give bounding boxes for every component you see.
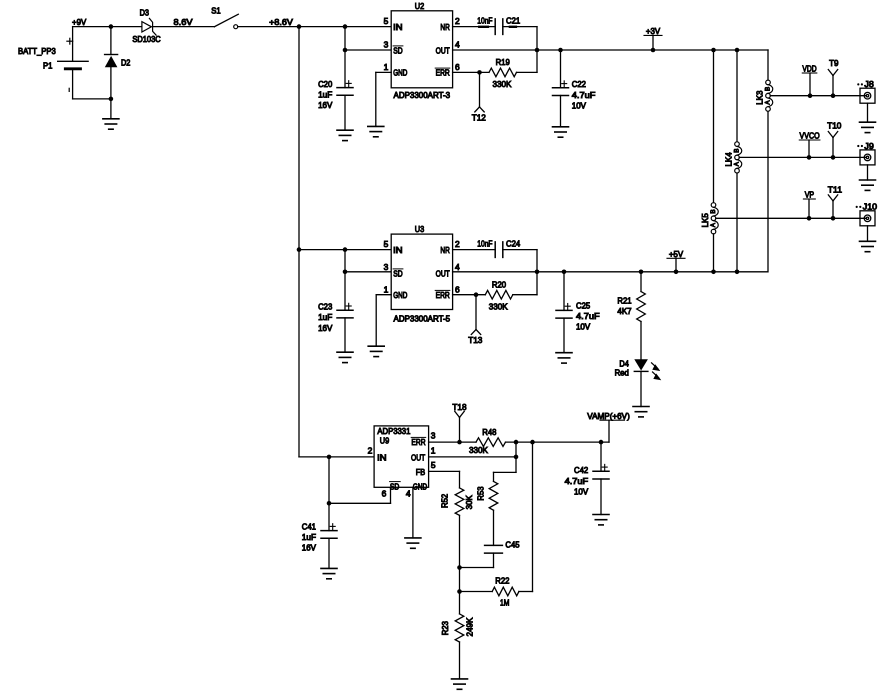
wire U2 ERR <box>453 71 489 73</box>
node +8.6V rail junction <box>297 24 302 29</box>
svg-text:3: 3 <box>431 431 436 441</box>
svg-text:4.7uF: 4.7uF <box>572 90 596 100</box>
test point T11 <box>828 184 843 220</box>
wire LK5 to J10 <box>716 217 866 219</box>
node C25 junction <box>562 270 567 275</box>
power flag VP <box>803 190 815 221</box>
wire U9 ERR <box>429 441 476 443</box>
test point T9 <box>828 58 839 98</box>
connector J10 <box>856 202 878 226</box>
svg-text:4: 4 <box>406 489 411 499</box>
node SD corner junction <box>327 501 332 506</box>
svg-text:GND: GND <box>393 290 407 300</box>
svg-text:1: 1 <box>384 284 389 294</box>
wire J10 to ground <box>867 226 869 242</box>
wire LK4 A to +5V <box>736 173 738 272</box>
svg-text:IN: IN <box>377 453 386 463</box>
capacitor C45 <box>485 539 520 553</box>
wire D2 bottom <box>110 67 112 99</box>
op-amp U9 ADP3331 body <box>368 426 436 499</box>
wire +3V to LK5 B <box>713 50 715 203</box>
svg-text:SD: SD <box>393 45 402 55</box>
svg-text:30K: 30K <box>464 495 474 510</box>
wire LK4 to J9 <box>739 156 866 158</box>
wire SD jog <box>329 487 391 503</box>
svg-text:OUT: OUT <box>411 453 425 463</box>
wire +3V to LK4 B <box>736 50 738 142</box>
wire C41 top <box>328 503 330 530</box>
svg-text:IN: IN <box>393 245 402 255</box>
svg-text:5: 5 <box>384 239 389 249</box>
svg-text:4K7: 4K7 <box>617 306 632 316</box>
capacitor C23 <box>318 301 353 332</box>
node U2 input junction <box>343 24 348 29</box>
svg-text:5: 5 <box>431 460 436 470</box>
wire rail to U9 IN <box>299 456 374 458</box>
node T18 junction <box>457 440 462 445</box>
svg-text:5: 5 <box>384 16 389 26</box>
svg-text:VP: VP <box>805 190 815 200</box>
jumper LK3 <box>754 80 772 111</box>
wire C23 to ground <box>344 318 346 352</box>
diode D2 <box>105 55 131 68</box>
node C21/OUT junction <box>535 48 540 53</box>
svg-text:1M: 1M <box>500 598 509 608</box>
ground J8 <box>860 122 876 132</box>
svg-text:3: 3 <box>384 40 389 50</box>
ground C42 <box>593 515 609 525</box>
wire OUT to R53 <box>494 442 517 481</box>
svg-text:GND: GND <box>413 481 427 491</box>
svg-text:C41: C41 <box>302 521 317 531</box>
wire C45 to junction <box>460 553 494 567</box>
capacitor C25 <box>556 300 600 331</box>
wire U2 NR to C21 <box>453 26 496 28</box>
node SD tee U3 <box>343 270 348 275</box>
ground C23 <box>337 352 353 362</box>
test point T13 <box>468 295 483 346</box>
wire R22 to top rail <box>519 442 533 591</box>
svg-text:VDD: VDD <box>802 64 816 74</box>
svg-text:R52: R52 <box>440 493 450 508</box>
svg-text:C24: C24 <box>506 238 521 248</box>
wire +3V to LK3 B <box>767 50 769 80</box>
jumper LK4 <box>723 142 741 173</box>
svg-text:1uF: 1uF <box>318 312 332 322</box>
svg-text:IN: IN <box>393 22 402 32</box>
LED D4 Red <box>615 359 662 381</box>
power flag VDD <box>802 64 817 98</box>
node C42 junction <box>599 440 604 445</box>
node +9V label <box>72 17 87 27</box>
wire U2 GND pin <box>376 72 391 126</box>
wire C20 to ground <box>344 95 346 130</box>
wire R19 to corner <box>517 71 538 73</box>
svg-text:16V: 16V <box>302 543 317 553</box>
op-amp U3 ADP3300ART-5 body <box>384 224 460 323</box>
svg-text:C20: C20 <box>318 79 333 89</box>
svg-text:ERR: ERR <box>436 68 450 78</box>
capacitor C20 <box>318 79 353 110</box>
svg-text:2: 2 <box>455 239 460 249</box>
wire D4 to ground <box>640 371 642 406</box>
svg-text:U9: U9 <box>380 436 390 446</box>
wire U3 GND pin <box>376 295 391 347</box>
svg-text:R20: R20 <box>492 280 507 290</box>
svg-text:4: 4 <box>455 40 460 50</box>
test point T10 <box>827 121 842 160</box>
wire R20 to corner <box>513 294 537 296</box>
svg-text:LK3: LK3 <box>754 90 764 105</box>
svg-text:10V: 10V <box>574 486 589 496</box>
node battery top junction <box>109 24 114 29</box>
power flag VAMP(+6V) <box>587 411 630 442</box>
svg-text:R53: R53 <box>475 486 485 501</box>
node T12/ERR junction <box>477 70 482 75</box>
wire C41 to ground <box>328 538 330 568</box>
svg-text:T10: T10 <box>827 121 842 131</box>
svg-text:3: 3 <box>384 262 389 272</box>
svg-text:B: B <box>733 148 740 153</box>
node R48/R53 junction <box>514 440 519 445</box>
switch S1 <box>211 6 238 29</box>
svg-text:GND: GND <box>393 68 407 78</box>
svg-text:330K: 330K <box>469 445 488 455</box>
resistor R48 330K <box>469 427 505 455</box>
wire U9 FB <box>429 471 460 488</box>
resistor R53 <box>475 481 497 510</box>
test point T18 <box>452 402 467 442</box>
svg-text:T13: T13 <box>468 335 483 345</box>
svg-text:J10: J10 <box>863 202 878 212</box>
node +8.6V label <box>269 17 293 27</box>
wire D3 to S1 <box>153 26 215 28</box>
capacitor C42 <box>565 464 609 496</box>
svg-text:249K: 249K <box>465 617 475 636</box>
svg-text:OUT: OUT <box>436 268 450 278</box>
svg-text:T18: T18 <box>452 402 467 412</box>
resistor R20 330K <box>485 280 513 312</box>
svg-text:330K: 330K <box>492 79 511 89</box>
svg-text:C22: C22 <box>572 79 587 89</box>
node OUT junction <box>514 455 519 460</box>
wire R48 to VAMP <box>506 441 610 443</box>
wire C25 to ground <box>563 318 565 353</box>
svg-text:R21: R21 <box>617 296 632 306</box>
svg-text:10nF: 10nF <box>477 15 492 25</box>
battery P1 <box>18 27 88 99</box>
node 8.6V label <box>174 17 193 27</box>
svg-text:1: 1 <box>384 62 389 72</box>
wire C25 top <box>563 272 565 311</box>
resistor R52 30K <box>440 488 474 516</box>
wire C24 to corner <box>503 250 537 295</box>
node +5V junction LK5 <box>711 270 716 275</box>
wire SD U3 <box>345 271 391 273</box>
wire LK3 A to +5V <box>767 111 769 271</box>
svg-text:P1: P1 <box>43 61 53 71</box>
wire J9 to ground <box>867 165 869 180</box>
wire C42 top <box>600 442 602 471</box>
wire U3 ERR <box>453 294 486 296</box>
ground C22 <box>553 127 569 137</box>
node R22 top junction <box>530 440 535 445</box>
svg-text:4: 4 <box>455 262 460 272</box>
svg-text:A: A <box>764 100 771 105</box>
svg-text:R48: R48 <box>482 427 497 437</box>
wire to ground <box>110 99 112 119</box>
wire C42 to ground <box>600 479 602 515</box>
wire S1 to U2 IN <box>238 26 392 28</box>
svg-text:A: A <box>710 223 717 228</box>
svg-text:8.6V: 8.6V <box>174 17 193 27</box>
wire R21 top <box>640 272 642 292</box>
svg-text:BATT_PP3: BATT_PP3 <box>18 46 56 56</box>
svg-text:U2: U2 <box>415 1 425 11</box>
node U9 IN junction <box>327 455 332 460</box>
wire U2 OUT rail +3V <box>453 49 768 51</box>
svg-text:D3: D3 <box>140 8 150 18</box>
svg-text:10nF: 10nF <box>477 238 492 248</box>
wire LK3 to J8 <box>770 95 866 97</box>
svg-text:ERR: ERR <box>411 437 425 447</box>
resistor R22 1M <box>492 576 519 608</box>
power flag +3V <box>644 26 662 52</box>
wire C21 to corner <box>503 27 537 73</box>
wire R53 to C45 <box>493 510 495 545</box>
svg-text:6: 6 <box>455 62 460 72</box>
wire U3 OUT rail +5V <box>453 271 768 273</box>
svg-text:C21: C21 <box>506 15 521 25</box>
svg-text:C25: C25 <box>576 300 591 310</box>
svg-text:D2: D2 <box>121 58 131 68</box>
svg-text:330K: 330K <box>489 302 508 312</box>
wire U9 GND pin <box>412 487 414 538</box>
svg-text:NR: NR <box>440 22 449 32</box>
node R21 junction <box>639 270 644 275</box>
op-amp U2 ADP3300ART-3 body <box>384 1 460 100</box>
svg-text:+9V: +9V <box>72 17 87 27</box>
node T13/ERR junction <box>474 292 479 297</box>
svg-text:+3V: +3V <box>646 26 661 36</box>
ground R23 <box>452 679 468 689</box>
svg-text:VAMP(+6V): VAMP(+6V) <box>587 411 630 421</box>
ground U9 GND <box>405 538 421 548</box>
node R22 junction <box>457 589 462 594</box>
node C22 junction <box>558 48 563 53</box>
wire C22 to ground <box>560 96 562 127</box>
node rail junction LK4 top <box>735 48 740 53</box>
svg-text:LK4: LK4 <box>723 152 733 167</box>
svg-text:B: B <box>764 86 771 91</box>
svg-text:ADP3300ART-5: ADP3300ART-5 <box>394 313 451 323</box>
wire D2 top <box>110 27 112 55</box>
capacitor C22 <box>553 79 596 110</box>
capacitor C24 10nF <box>477 238 520 257</box>
svg-text:4.7uF: 4.7uF <box>565 476 589 486</box>
ground U3 GND <box>368 346 384 356</box>
ground C41 <box>321 568 337 578</box>
capacitor C21 10nF <box>477 15 520 34</box>
svg-text:2: 2 <box>455 16 460 26</box>
svg-text:T11: T11 <box>828 184 843 194</box>
svg-text:A: A <box>733 162 740 167</box>
test point T12 <box>472 72 487 122</box>
ground D4 <box>633 407 649 417</box>
svg-text:LK5: LK5 <box>700 213 710 228</box>
svg-text:NR: NR <box>440 245 449 255</box>
wire SD drop <box>328 457 330 503</box>
connector J9 <box>857 141 875 165</box>
wire +9V battery top <box>73 26 111 28</box>
node SD tee U2 <box>343 48 348 53</box>
wire U9 OUT <box>429 456 516 458</box>
connector J8 <box>857 79 875 103</box>
svg-text:1uF: 1uF <box>318 90 332 100</box>
ground C25 <box>556 353 572 363</box>
wire J8 to ground <box>867 103 869 122</box>
svg-text:10V: 10V <box>576 321 591 331</box>
wire R21 to D4 <box>640 322 642 360</box>
ground C20 <box>337 130 353 140</box>
svg-text:J8: J8 <box>864 79 874 89</box>
resistor R21 4K7 <box>617 292 645 322</box>
svg-text:16V: 16V <box>318 323 333 333</box>
svg-text:C42: C42 <box>574 465 589 475</box>
wire R23 to ground <box>459 642 461 679</box>
svg-text:FB: FB <box>416 467 426 477</box>
node C45 junction <box>457 565 462 570</box>
svg-text:10V: 10V <box>572 100 587 110</box>
node battery bottom junction <box>109 97 114 102</box>
ground J9 <box>860 180 876 190</box>
wire rail to U3 IN <box>299 249 391 251</box>
wire U3 NR to C24 <box>453 249 496 251</box>
diode D3 SD103C <box>132 8 160 44</box>
node C24/OUT junction <box>535 270 540 275</box>
svg-text:ADP3331: ADP3331 <box>377 426 410 436</box>
svg-text:SD: SD <box>393 268 402 278</box>
svg-text:T9: T9 <box>829 58 839 68</box>
wire LK5 A to +5V <box>713 234 715 272</box>
svg-text:2: 2 <box>368 445 373 455</box>
svg-text:VVCO: VVCO <box>800 131 821 141</box>
svg-text:ADP3300ART-3: ADP3300ART-3 <box>394 90 451 100</box>
svg-text:4.7uF: 4.7uF <box>576 311 600 321</box>
svg-text:R19: R19 <box>496 57 511 67</box>
power flag VVCO <box>799 131 820 160</box>
svg-text:+5V: +5V <box>669 249 684 259</box>
node +5V junction LK4 <box>735 270 740 275</box>
wire SD U2 <box>345 49 391 51</box>
svg-text:+8.6V: +8.6V <box>269 17 293 27</box>
svg-text:Red: Red <box>615 368 630 378</box>
svg-text:6: 6 <box>455 284 460 294</box>
wire input to SD/C23 <box>344 250 346 311</box>
svg-text:16V: 16V <box>318 100 333 110</box>
wire R52 down <box>459 515 461 591</box>
wire node to D3 <box>111 26 142 28</box>
svg-text:R22: R22 <box>495 576 510 586</box>
svg-text:R23: R23 <box>440 621 450 636</box>
ground U2 GND <box>368 126 384 136</box>
wire +8.6V rail vertical <box>298 27 300 457</box>
svg-text:1: 1 <box>431 445 436 455</box>
svg-text:B: B <box>710 209 717 214</box>
resistor R19 330K <box>489 57 517 89</box>
svg-text:J9: J9 <box>864 141 874 151</box>
svg-text:SD103C: SD103C <box>132 34 160 44</box>
node U3 rail junction <box>297 247 302 252</box>
capacitor C41 <box>302 521 337 552</box>
svg-text:SD: SD <box>390 481 399 491</box>
resistor R23 249K <box>440 592 475 643</box>
wire input to SD/C20 <box>344 27 346 88</box>
svg-text:ERR: ERR <box>436 290 450 300</box>
wire C22 top <box>560 50 562 88</box>
svg-text:U3: U3 <box>415 224 425 234</box>
wire R22 left <box>460 591 493 593</box>
svg-text:1uF: 1uF <box>302 532 316 542</box>
ground below D2 <box>103 119 119 129</box>
node rail junction LK5 top <box>711 48 716 53</box>
svg-text:S1: S1 <box>211 6 221 16</box>
wire battery bottom <box>73 98 111 100</box>
svg-text:C23: C23 <box>318 301 333 311</box>
node U3 input junction <box>343 247 348 252</box>
power flag +5V <box>667 249 685 274</box>
ground J10 <box>860 241 876 251</box>
svg-text:OUT: OUT <box>436 45 450 55</box>
svg-text:C45: C45 <box>505 539 520 549</box>
svg-text:T12: T12 <box>472 113 487 123</box>
svg-text:6: 6 <box>382 489 387 499</box>
jumper LK5 <box>700 203 718 234</box>
